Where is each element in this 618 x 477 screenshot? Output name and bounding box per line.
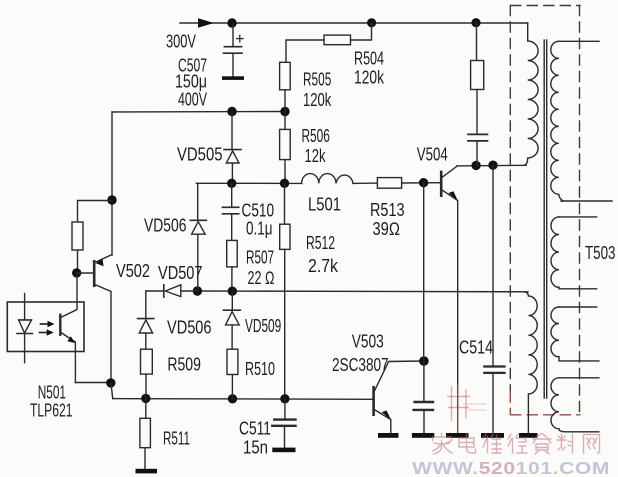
- resistor R510: [227, 349, 238, 399]
- wire top 300V rail: [180, 22, 528, 24]
- svg-text:VD509: VD509: [245, 316, 281, 336]
- wire V504 base to V503 collector: [423, 183, 425, 361]
- label V502: [116, 261, 150, 281]
- arrow 300V feed: [198, 18, 214, 27]
- optocoupler light arrows: [40, 321, 55, 336]
- svg-text:R504: R504: [354, 49, 384, 69]
- diode VD506 first: [190, 183, 206, 291]
- ground R511: [136, 469, 158, 474]
- svg-text:C514: C514: [459, 338, 493, 358]
- svg-text:150μ: 150μ: [175, 72, 207, 92]
- wire link to bottom rail: [111, 383, 113, 399]
- wire mid rail y291: [197, 290, 528, 293]
- svg-text:2.7k: 2.7k: [308, 256, 339, 276]
- svg-text:R512: R512: [306, 233, 335, 253]
- transformer primary winding: [524, 23, 538, 165]
- label C511 value: [239, 419, 271, 458]
- node junction top R504: [367, 18, 376, 27]
- inductor L501: [302, 174, 353, 184]
- resistor R505: [280, 62, 291, 111]
- char jia: [433, 434, 453, 455]
- ground C511: [272, 448, 295, 453]
- transistor V503: [374, 361, 424, 433]
- watermark red fragments: [447, 386, 470, 421]
- svg-text:V504: V504: [417, 145, 448, 165]
- label R505: [303, 70, 332, 111]
- ground feedback winding: [519, 433, 538, 438]
- node bottom rail R510: [228, 394, 237, 403]
- node V502 base: [72, 268, 81, 277]
- label V504: [417, 145, 448, 165]
- svg-text:C511: C511: [239, 419, 271, 439]
- resistor R509: [141, 349, 153, 398]
- node C514 top: [488, 161, 497, 170]
- char wang: [584, 435, 600, 454]
- svg-text:V503: V503: [352, 332, 384, 352]
- label VD509: [245, 316, 281, 336]
- watermark chinese characters: [433, 434, 600, 455]
- svg-text:15n: 15n: [243, 438, 268, 458]
- capacitor C507: [222, 23, 244, 80]
- label T503: [585, 243, 616, 263]
- node V502 emitter branch: [107, 195, 116, 204]
- label R506: [302, 126, 330, 166]
- ground V504 emitter: [446, 433, 469, 438]
- LED N501: [17, 294, 32, 363]
- svg-text:120k: 120k: [303, 90, 332, 110]
- svg-text:T503: T503: [585, 243, 616, 263]
- node 400V at R505/R506: [280, 107, 289, 116]
- wire V504 emitter lower (red tinge): [457, 385, 459, 433]
- label C507 value: [175, 56, 207, 110]
- svg-text:400V: 400V: [178, 90, 207, 110]
- wire to base resistor: [78, 201, 113, 223]
- optocoupler N501 box: [7, 302, 84, 352]
- resistor base V502: [72, 222, 83, 273]
- label R512: [306, 233, 339, 276]
- label R504: [354, 49, 385, 88]
- wire drive rail y183: [197, 182, 442, 185]
- svg-text:V502: V502: [116, 261, 150, 281]
- ground V503 collector cap: [412, 433, 434, 438]
- svg-text:39Ω: 39Ω: [373, 219, 401, 239]
- node 400V at C507 branch: [227, 107, 236, 116]
- node snubber bottom: [471, 161, 480, 170]
- transformer secondary 1: [551, 41, 612, 201]
- node junction top snubber: [471, 18, 480, 27]
- node junction top C507: [227, 18, 236, 27]
- char liao: [557, 434, 573, 453]
- label VD507: [158, 263, 203, 283]
- wire left HV drop: [111, 112, 113, 255]
- svg-text:WWW.520101.COM: WWW.520101.COM: [412, 458, 610, 477]
- label R510: [245, 359, 275, 379]
- transformer core: [544, 40, 547, 398]
- node mid rail C510/VD509: [228, 287, 237, 296]
- transformer dashed box lower red part: [510, 392, 580, 415]
- char xiu: [508, 434, 527, 453]
- svg-text:VD506: VD506: [167, 318, 212, 338]
- svg-text:R505: R505: [303, 70, 331, 90]
- diode VD507: [146, 285, 198, 297]
- transistor V502: [77, 255, 112, 384]
- label C514: [459, 338, 493, 358]
- resistor snubber: [471, 23, 484, 90]
- watermark URL: [412, 458, 610, 477]
- svg-text:300V: 300V: [166, 32, 196, 52]
- svg-text:0.1μ: 0.1μ: [246, 219, 273, 239]
- node bottom rail R509: [141, 394, 150, 403]
- svg-text:R509: R509: [167, 355, 201, 375]
- transformer T503 dashed box: [510, 6, 580, 416]
- node emitter junction: [106, 378, 115, 387]
- label N501 TLP621: [30, 383, 73, 421]
- label C510 value: [242, 201, 275, 239]
- ground V503 emitter: [378, 433, 399, 438]
- node V504 base: [419, 178, 428, 187]
- svg-text:R506: R506: [302, 126, 330, 146]
- svg-text:L501: L501: [308, 195, 341, 215]
- wire bottom rail: [113, 398, 374, 401]
- svg-text:TLP621: TLP621: [30, 401, 73, 421]
- capacitor C511: [272, 399, 295, 448]
- node bottom rail R512/C511: [280, 394, 289, 403]
- char wei: [483, 434, 501, 453]
- resistor R504: [286, 23, 372, 62]
- diode VD509: [223, 291, 240, 349]
- svg-text:22 Ω: 22 Ω: [248, 268, 275, 288]
- svg-text:2SC3807: 2SC3807: [332, 355, 389, 375]
- svg-text:N501: N501: [38, 383, 66, 403]
- svg-text:R513: R513: [370, 200, 405, 220]
- svg-text:12k: 12k: [305, 146, 327, 166]
- svg-text:VD506: VD506: [144, 216, 187, 236]
- label VD506 first: [144, 216, 187, 236]
- label L501: [308, 195, 341, 215]
- wire 400V rail: [112, 111, 285, 114]
- label R507 value: [246, 248, 275, 289]
- capacitor V503 collector: [414, 361, 433, 433]
- label VD505: [177, 145, 223, 165]
- capacitor snubber: [468, 90, 488, 166]
- resistor R507: [227, 240, 238, 291]
- char dian: [459, 434, 476, 454]
- diode VD505: [224, 112, 241, 184]
- svg-text:120k: 120k: [354, 68, 385, 88]
- label R511: [163, 429, 190, 449]
- svg-text:R511: R511: [163, 429, 190, 449]
- node drive rail at VD505/C510: [227, 179, 236, 188]
- svg-text:VD505: VD505: [177, 145, 223, 165]
- resistor R511: [140, 399, 151, 470]
- transistor V504: [441, 166, 458, 385]
- phototransistor N501: [60, 273, 77, 383]
- node drive rail at R506/R512: [280, 179, 289, 188]
- ground C514: [481, 433, 504, 438]
- resistor R513: [377, 178, 401, 189]
- capacitor C510: [223, 183, 239, 240]
- capacitor C514: [484, 165, 504, 433]
- svg-text:R510: R510: [245, 359, 275, 379]
- transformer secondary 3: [551, 307, 599, 361]
- label R513: [370, 200, 405, 239]
- char zi: [533, 434, 551, 455]
- wire opto emitter to V502 collector: [75, 382, 111, 384]
- diode VD506 second: [138, 291, 154, 349]
- label R509: [167, 355, 201, 375]
- wire collector rail y165: [457, 164, 526, 167]
- transformer feedback winding: [524, 292, 537, 433]
- svg-text:VD507: VD507: [158, 263, 203, 283]
- node V503 collector: [419, 356, 429, 366]
- label VD506 second: [167, 318, 212, 338]
- label 300V: [166, 32, 196, 52]
- svg-text:C510: C510: [242, 201, 275, 221]
- label V503 2SC3807: [332, 332, 389, 376]
- resistor R506: [280, 112, 291, 184]
- svg-text:R507: R507: [246, 248, 274, 268]
- resistor R512: [280, 183, 290, 398]
- node mid rail VD506: [193, 286, 202, 295]
- transformer secondary 2: [551, 217, 597, 289]
- transformer secondary 4: [551, 378, 599, 432]
